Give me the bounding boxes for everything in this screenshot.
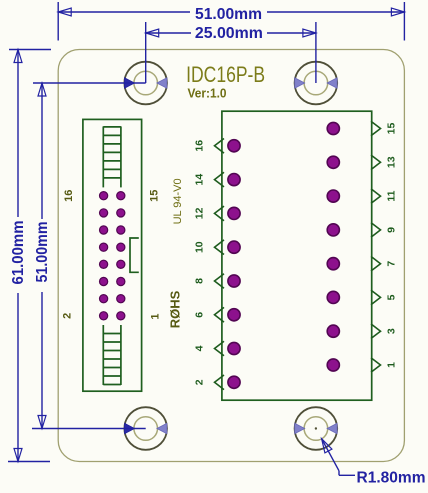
- header pad pin 5: [327, 291, 339, 303]
- svg-text:25.00mm: 25.00mm: [195, 25, 263, 42]
- header pad pin 3: [327, 325, 339, 337]
- svg-text:16: 16: [194, 140, 206, 152]
- svg-text:13: 13: [386, 156, 398, 168]
- mounting hole MH3 bottom-left: [124, 407, 167, 450]
- pin 13 marker and number: [371, 155, 398, 170]
- svg-text:2: 2: [194, 379, 206, 385]
- pin header outline: [222, 111, 372, 400]
- polarization ladder top: [103, 126, 121, 187]
- svg-text:16: 16: [63, 190, 75, 202]
- dimension 51.00mm vertical (hole spacing): [32, 83, 146, 429]
- radius leader R1.80mm: [322, 439, 426, 487]
- pin 16 marker and number: [194, 139, 225, 154]
- svg-text:51.00mm: 51.00mm: [34, 222, 51, 283]
- pin 12 marker and number: [194, 206, 225, 221]
- polarization ladder bottom: [103, 325, 121, 385]
- pin 1 marker and number: [371, 358, 398, 373]
- header pad pin 6: [228, 309, 240, 321]
- svg-text:1: 1: [150, 313, 162, 319]
- svg-text:R1.80mm: R1.80mm: [357, 470, 426, 487]
- header pad pin 15: [327, 122, 339, 134]
- svg-text:5: 5: [386, 294, 398, 300]
- header pad pin 13: [327, 156, 339, 168]
- svg-text:4: 4: [194, 345, 206, 351]
- svg-text:61.00mm: 61.00mm: [10, 221, 27, 285]
- svg-text:12: 12: [194, 207, 206, 219]
- header pad pin 11: [327, 190, 339, 202]
- pin 10 marker and number: [194, 240, 225, 255]
- pin 5 marker and number: [371, 290, 398, 305]
- pin 4 marker and number: [194, 341, 225, 356]
- svg-text:IDC16P-B: IDC16P-B: [186, 62, 265, 87]
- header pad pin 7: [327, 258, 339, 270]
- header pad pin 14: [228, 174, 240, 186]
- svg-text:UL 94-V0: UL 94-V0: [172, 178, 184, 224]
- svg-text:3: 3: [386, 328, 398, 334]
- pin 9 marker and number: [371, 223, 398, 238]
- pin 6 marker and number: [194, 307, 225, 322]
- svg-text:7: 7: [386, 261, 398, 267]
- header pad pin 4: [228, 342, 240, 354]
- IDC pads column right (odd pins 15..1): [117, 192, 125, 320]
- pin 7 marker and number: [371, 256, 398, 271]
- svg-text:6: 6: [194, 312, 206, 318]
- svg-text:15: 15: [148, 190, 160, 202]
- pin 8 marker and number: [194, 274, 225, 289]
- svg-text:11: 11: [386, 190, 398, 201]
- header pad pin 1: [327, 359, 339, 371]
- IDC connector J1 body outline: [83, 119, 142, 391]
- svg-text:9: 9: [386, 227, 398, 233]
- svg-text:8: 8: [194, 278, 206, 284]
- mounting hole MH1 top-left: [124, 62, 167, 105]
- svg-text:51.00mm: 51.00mm: [195, 6, 262, 23]
- svg-text:15: 15: [386, 123, 398, 135]
- pin 3 marker and number: [371, 324, 398, 339]
- header pad pin 10: [228, 241, 240, 253]
- dimension 25.00mm horizontal (hole spacing): [146, 22, 316, 83]
- svg-text:2: 2: [62, 313, 74, 319]
- header pad pin 8: [228, 275, 240, 287]
- mounting hole MH2 top-right: [295, 62, 338, 105]
- key notch: [130, 238, 139, 272]
- header pad pin 2: [228, 376, 240, 388]
- pin 2 marker and number: [194, 375, 225, 390]
- svg-text:10: 10: [194, 241, 206, 253]
- header pad pin 12: [228, 207, 240, 219]
- mounting hole MH4 bottom-right: [295, 407, 338, 450]
- svg-text:14: 14: [194, 174, 206, 186]
- dimension 61.00mm vertical (board height): [8, 50, 51, 462]
- svg-text:1: 1: [386, 362, 398, 368]
- svg-text:RØHS: RØHS: [167, 290, 182, 328]
- header pad pin 16: [228, 140, 240, 152]
- pin 14 marker and number: [194, 172, 225, 187]
- dimension 51.00mm horizontal (board width): [58, 2, 404, 41]
- IDC pads column left (even pins 16..2): [100, 192, 108, 320]
- pin 11 marker and number: [371, 189, 398, 204]
- svg-text:Ver:1.0: Ver:1.0: [188, 86, 227, 101]
- board outline: [58, 50, 404, 462]
- header pad pin 9: [327, 224, 339, 236]
- pin 15 marker and number: [371, 121, 398, 136]
